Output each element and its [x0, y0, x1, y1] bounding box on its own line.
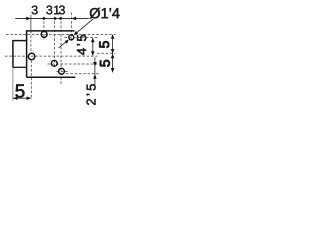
arrow down above span	[93, 62, 97, 67]
arrow down at mid ref	[111, 49, 115, 53]
diagonal arrowhead pointing up-right at circle	[65, 39, 69, 43]
arrow up below mid ref	[111, 54, 115, 58]
diagonal arrowhead pointing down-left at circle	[74, 31, 78, 35]
extension line tab bottom (2'5 lower ref)	[66, 73, 100, 75]
chain arrow right-pointing at x=30.9	[26, 17, 30, 21]
arrow up at C1 centerline	[111, 35, 115, 39]
dim text 1	[54, 6, 59, 15]
right outer dimension line	[112, 35, 114, 73]
part outline tab bottom edge (faint)	[13, 66, 27, 68]
extension line left edge down	[12, 68, 14, 101]
chain arrow left-pointing at x=71.45	[72, 17, 76, 21]
centerline C4 vertical	[60, 17, 62, 86]
top chain dimension line	[15, 17, 89, 19]
centerline C1 horizontal	[6, 33, 116, 35]
dim text O1'4	[90, 8, 120, 19]
centerline C3 horizontal	[48, 63, 101, 65]
dim text 5	[99, 41, 109, 48]
centerline C2 vertical	[70, 13, 72, 42]
chain dot 1	[43, 17, 46, 20]
arrow up below span	[93, 74, 97, 79]
arrow down at C5 centerline	[91, 51, 95, 55]
bottom arrow right	[27, 96, 31, 100]
dim text 4'5	[77, 35, 86, 55]
part outline tab left edge	[12, 40, 14, 67]
dim text 3	[32, 6, 38, 15]
hole C5	[28, 53, 34, 60]
dim text 3	[59, 6, 65, 15]
arrow down at C4 ref	[111, 68, 115, 72]
hole C2 (Ø1'4)	[69, 35, 74, 40]
centerline C2 horizontal	[65, 36, 98, 38]
part outline tab top edge	[13, 40, 27, 42]
centerline C4 horizontal	[57, 71, 69, 73]
arrow up at C2 centerline	[91, 38, 95, 42]
centerline C3 vertical	[54, 17, 56, 68]
dim text 3	[46, 6, 52, 15]
bottom dimension line 5	[13, 97, 31, 99]
centerline C5 vertical (chain tick 1)	[30, 15, 32, 31]
extension line right mid ref	[97, 52, 116, 54]
dim text 5	[100, 60, 110, 67]
dim text 5	[16, 84, 25, 97]
centerline C5 horizontal	[5, 55, 98, 57]
bottom arrow left	[13, 96, 17, 100]
Ø1'4 diameter dimension diagonal upper segment	[76, 19, 93, 33]
chain dot 2	[54, 17, 57, 20]
hole C1	[41, 31, 47, 37]
hole C3	[51, 60, 57, 66]
Ø1'4 diameter dimension diagonal lower segment	[59, 42, 67, 48]
hole C4	[59, 68, 65, 74]
chain dot 3	[59, 17, 62, 20]
centerline C1 vertical	[43, 17, 45, 40]
dim text 2'5	[86, 84, 95, 105]
part outline top edge	[26, 30, 74, 32]
centerline C5 vertical lower (to bottom dim)	[30, 60, 32, 99]
part outline bottom edge	[27, 76, 76, 78]
part outline left edge	[26, 30, 28, 77]
inner dimension line 4'5	[92, 38, 94, 56]
inner dimension line 2'5	[94, 58, 96, 87]
